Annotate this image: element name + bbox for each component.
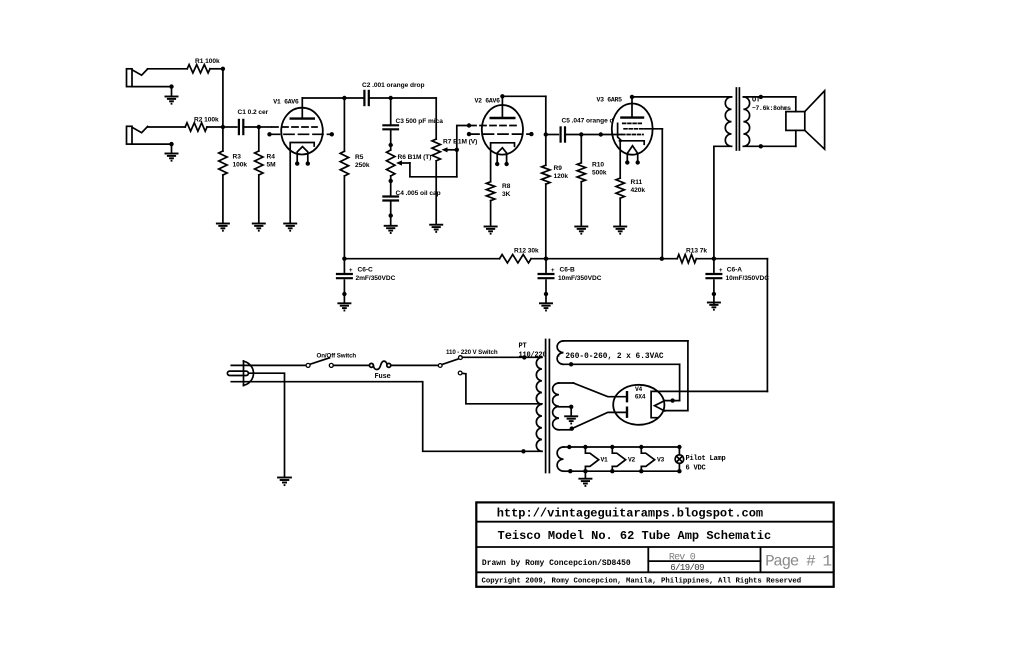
node junction bbox=[579, 132, 583, 136]
wire bbox=[565, 134, 581, 136]
ground bbox=[429, 225, 443, 232]
V2 grid bbox=[470, 125, 517, 127]
title block bbox=[476, 502, 833, 586]
node bbox=[521, 449, 525, 453]
label heater V2 bbox=[628, 457, 636, 464]
svg-text:C6-C: C6-C bbox=[358, 267, 373, 274]
node bbox=[389, 143, 393, 147]
svg-text:+: + bbox=[349, 268, 353, 274]
heater V2 bbox=[610, 445, 626, 474]
wire bbox=[490, 201, 492, 227]
ground bbox=[283, 224, 297, 231]
wire bbox=[171, 87, 173, 97]
label R8 bbox=[502, 183, 511, 198]
ground bbox=[578, 479, 592, 486]
wire bbox=[392, 364, 439, 366]
heater V3 bbox=[639, 445, 655, 474]
svg-text:R4: R4 bbox=[267, 154, 276, 161]
switch 110-220V bbox=[438, 356, 462, 375]
resistor R3 bbox=[219, 151, 227, 175]
wire AC low bbox=[250, 382, 542, 452]
wire bbox=[545, 96, 547, 134]
wire bbox=[743, 96, 795, 98]
svg-text:R12 30k: R12 30k bbox=[514, 247, 539, 254]
svg-text:3K: 3K bbox=[502, 191, 511, 198]
V1 heater bbox=[295, 147, 310, 166]
label heater V3 bbox=[657, 457, 665, 464]
node bbox=[630, 95, 634, 99]
node bbox=[670, 398, 674, 402]
node bbox=[570, 426, 574, 430]
V4 cathode bbox=[651, 391, 767, 417]
node junction bbox=[389, 96, 393, 100]
label C6-B bbox=[551, 267, 602, 282]
node junction bbox=[221, 67, 225, 71]
PT rect heater winding bbox=[557, 341, 688, 364]
label V4 bbox=[635, 386, 646, 401]
wire bbox=[581, 134, 601, 136]
switch On/Off bbox=[306, 358, 333, 368]
svg-text:6 VDC: 6 VDC bbox=[686, 465, 706, 473]
ground bbox=[564, 416, 578, 423]
V1 plate bbox=[290, 98, 316, 119]
wire bbox=[665, 400, 680, 402]
label PT bbox=[519, 343, 547, 360]
pot R7 bbox=[432, 98, 457, 225]
ground bbox=[484, 227, 498, 234]
wire bbox=[223, 126, 237, 128]
wire bbox=[524, 356, 542, 358]
capacitor C6-C bbox=[336, 259, 353, 303]
V3 suppressor tie bbox=[618, 123, 622, 140]
label heater V1 bbox=[601, 457, 609, 464]
svg-text:R6 B1M (T): R6 B1M (T) bbox=[398, 154, 432, 161]
label C1 bbox=[238, 109, 269, 116]
node junction bbox=[455, 148, 459, 152]
V2 heater bbox=[495, 148, 509, 166]
speaker bbox=[786, 91, 825, 149]
wire bbox=[546, 258, 662, 260]
wire bbox=[584, 471, 586, 478]
label 6 VDC bbox=[686, 465, 706, 473]
resistor R13 bbox=[677, 255, 696, 263]
svg-text:5M: 5M bbox=[267, 162, 277, 169]
PT primary bbox=[536, 357, 542, 451]
label R10 bbox=[592, 162, 607, 177]
svg-text:C5 .047 orange d: C5 .047 orange d bbox=[562, 118, 614, 125]
wire bbox=[696, 258, 714, 260]
svg-text:R2 100k: R2 100k bbox=[194, 116, 219, 123]
wire bbox=[334, 364, 370, 366]
wire bbox=[222, 175, 224, 223]
V3 grid1 bbox=[623, 122, 643, 124]
wire bbox=[390, 201, 392, 216]
svg-text:Fuse: Fuse bbox=[375, 373, 391, 381]
wire bbox=[390, 129, 392, 145]
wire bbox=[132, 86, 172, 88]
svg-text:110/220: 110/220 bbox=[519, 352, 547, 360]
svg-text:R9: R9 bbox=[554, 165, 563, 172]
svg-text:V4: V4 bbox=[635, 386, 643, 393]
wire bbox=[250, 364, 306, 366]
wire bbox=[795, 130, 797, 146]
label R7 bbox=[443, 139, 477, 146]
wire bbox=[222, 127, 224, 151]
PT heater winding bbox=[557, 447, 570, 471]
label R5 bbox=[355, 154, 370, 169]
tube V3 envelope bbox=[612, 104, 653, 155]
ground bbox=[337, 303, 351, 310]
svg-text:R11: R11 bbox=[631, 179, 643, 186]
label R2 bbox=[194, 116, 219, 123]
label C2 bbox=[362, 82, 424, 89]
svg-text:110 - 220 V Switch: 110 - 220 V Switch bbox=[446, 349, 498, 356]
node junction bbox=[544, 257, 548, 261]
wire screen feed bbox=[661, 129, 663, 259]
node junction bbox=[660, 257, 664, 261]
wire bbox=[132, 143, 172, 145]
wire bbox=[665, 341, 688, 411]
wire bbox=[302, 97, 344, 99]
svg-text:http://vintageguitaramps.blogs: http://vintageguitaramps.blogspot.com bbox=[497, 507, 763, 521]
pot R6 bbox=[387, 145, 410, 176]
resistor R12 bbox=[500, 255, 532, 263]
svg-text:C1 0.2 cer: C1 0.2 cer bbox=[238, 109, 269, 116]
node junction bbox=[712, 257, 716, 261]
label C6-C bbox=[349, 267, 396, 282]
node junction bbox=[342, 257, 346, 261]
wire bbox=[743, 145, 795, 147]
label On/Off Switch bbox=[317, 353, 357, 360]
node bbox=[389, 179, 393, 183]
svg-text:R10: R10 bbox=[592, 162, 604, 169]
label HV winding bbox=[556, 353, 664, 361]
svg-text:250k: 250k bbox=[355, 162, 370, 169]
label 110-220 V Switch bbox=[446, 349, 498, 356]
svg-text:V3: V3 bbox=[657, 457, 665, 464]
wire bbox=[619, 141, 621, 178]
label C6-A bbox=[719, 267, 769, 282]
wire bbox=[546, 134, 559, 136]
wire bbox=[714, 146, 732, 258]
wire bbox=[207, 126, 223, 128]
svg-text:V1: V1 bbox=[601, 457, 609, 464]
wire heater top bbox=[569, 446, 679, 448]
wire bbox=[171, 144, 173, 153]
label R9 bbox=[554, 165, 569, 180]
svg-text:R8: R8 bbox=[502, 183, 511, 190]
wire bbox=[632, 96, 732, 98]
wire B+ rail bbox=[344, 258, 499, 260]
label R4 bbox=[267, 154, 277, 169]
ground bbox=[613, 227, 627, 234]
ground bbox=[574, 227, 588, 234]
wire bbox=[462, 356, 524, 358]
wire chassis bbox=[248, 373, 284, 477]
capacitor C1 bbox=[239, 119, 243, 135]
svg-text:R3: R3 bbox=[233, 154, 242, 161]
svg-text:C6-B: C6-B bbox=[560, 267, 575, 274]
resistor R5 bbox=[340, 98, 348, 259]
ground bbox=[707, 303, 721, 310]
wire bbox=[259, 126, 271, 128]
V1 cathode bbox=[290, 143, 314, 224]
wire bbox=[714, 258, 768, 260]
svg-text:- 260-0-260, 2 x 6.3VAC: - 260-0-260, 2 x 6.3VAC bbox=[556, 353, 664, 361]
svg-text:Copyright 2009, Romy Concepcio: Copyright 2009, Romy Concepcion, Manila,… bbox=[482, 578, 802, 586]
wire bbox=[258, 175, 260, 223]
svg-text:V3 6AR5: V3 6AR5 bbox=[597, 97, 623, 104]
ground bbox=[165, 97, 179, 104]
node bbox=[759, 144, 763, 148]
node bbox=[569, 362, 573, 366]
wire bbox=[344, 97, 364, 99]
wire bbox=[457, 126, 469, 177]
ground bbox=[384, 226, 398, 233]
svg-text:10mF/350VDC: 10mF/350VDC bbox=[726, 275, 770, 282]
heater V1 bbox=[583, 445, 599, 474]
V3 heater bbox=[625, 146, 640, 165]
wire bbox=[390, 176, 392, 196]
svg-text:R5: R5 bbox=[355, 154, 364, 161]
V2 diode plates bbox=[467, 132, 534, 136]
capacitor C5 bbox=[561, 126, 565, 142]
svg-text:2mF/350VDC: 2mF/350VDC bbox=[356, 275, 396, 282]
svg-text:Page # 1: Page # 1 bbox=[765, 553, 831, 571]
label C3 bbox=[396, 118, 444, 125]
node bbox=[522, 355, 526, 359]
OT primary bbox=[725, 97, 731, 146]
svg-text:6X4: 6X4 bbox=[635, 394, 646, 401]
PT HV winding bbox=[553, 383, 574, 430]
svg-text:R13 7k: R13 7k bbox=[686, 247, 707, 254]
svg-text:V2: V2 bbox=[628, 457, 636, 464]
svg-text:R7 B1M (V): R7 B1M (V) bbox=[443, 139, 477, 146]
AC plug bbox=[227, 361, 253, 386]
svg-text:+: + bbox=[719, 268, 723, 274]
resistor R11 bbox=[616, 178, 624, 198]
node bbox=[759, 95, 763, 99]
wire to V4 plate 1 bbox=[573, 383, 626, 397]
fuse F1 bbox=[369, 361, 390, 369]
svg-text:R1 100k: R1 100k bbox=[195, 58, 220, 65]
label R3 bbox=[233, 154, 248, 169]
capacitor C6-B bbox=[538, 259, 555, 303]
wire bbox=[391, 97, 437, 99]
V2 cathode bbox=[491, 143, 515, 182]
wire bbox=[662, 258, 677, 260]
capacitor C2 bbox=[364, 90, 368, 106]
svg-text:500k: 500k bbox=[592, 170, 607, 177]
V3 cathode bbox=[620, 141, 645, 145]
svg-text:6/19/09: 6/19/09 bbox=[670, 563, 704, 573]
node junction bbox=[467, 123, 471, 127]
resistor R2 bbox=[185, 123, 207, 131]
V3 grid3 bbox=[622, 134, 643, 136]
node bbox=[389, 213, 393, 217]
HV center tap bbox=[559, 405, 573, 417]
wire bbox=[243, 126, 258, 128]
wire bbox=[210, 68, 223, 70]
node bbox=[567, 445, 572, 474]
label OT ratio bbox=[752, 105, 791, 112]
wire bbox=[258, 127, 260, 151]
V3 plate bbox=[620, 97, 644, 118]
OT core bbox=[736, 88, 739, 150]
node junction bbox=[257, 125, 261, 129]
svg-text:420k: 420k bbox=[631, 187, 646, 194]
svg-text:C6-A: C6-A bbox=[727, 267, 742, 274]
V2 plate bbox=[490, 96, 516, 118]
tube V2 envelope bbox=[482, 105, 523, 155]
label R12 bbox=[514, 247, 539, 254]
wire heater bottom bbox=[570, 470, 679, 472]
svg-text:V2 6AV6: V2 6AV6 bbox=[475, 98, 501, 105]
label V1 bbox=[273, 98, 299, 105]
wire bbox=[531, 258, 546, 260]
wire bbox=[619, 198, 621, 226]
tube V4 envelope bbox=[613, 385, 664, 425]
wire bbox=[390, 98, 392, 125]
svg-text:V1 6AV6: V1 6AV6 bbox=[273, 98, 299, 105]
label R1 bbox=[195, 58, 220, 65]
label V3 bbox=[597, 97, 623, 104]
wire bbox=[390, 216, 392, 226]
ground bbox=[252, 224, 266, 231]
V4 plate 2 bbox=[626, 407, 628, 418]
node junction bbox=[544, 132, 548, 136]
resistor R4 bbox=[255, 151, 263, 175]
V3 screen bbox=[624, 128, 662, 130]
V4 plate 1 bbox=[626, 391, 628, 402]
resistor R10 bbox=[577, 135, 585, 227]
svg-text:120k: 120k bbox=[554, 173, 569, 180]
node junction bbox=[342, 96, 346, 100]
capacitor C4 bbox=[382, 197, 399, 201]
V1 diode plates bbox=[267, 132, 334, 136]
label R6 bbox=[398, 154, 432, 161]
svg-text:C4 .005 oil cap: C4 .005 oil cap bbox=[396, 190, 441, 197]
pilot lamp bbox=[675, 445, 684, 474]
svg-text:On/Off Switch: On/Off Switch bbox=[317, 353, 357, 360]
svg-text:+: + bbox=[551, 268, 555, 274]
wire to V4 plate 2 bbox=[572, 412, 626, 428]
input jack J1 bbox=[127, 69, 148, 87]
svg-text:Teisco Model No. 62 Tube Amp S: Teisco Model No. 62 Tube Amp Schematic bbox=[498, 529, 772, 543]
ground bbox=[216, 224, 230, 231]
label C5 bbox=[562, 118, 614, 125]
capacitor C3 bbox=[382, 125, 399, 129]
resistor R8 bbox=[486, 182, 494, 201]
ground bbox=[539, 303, 553, 310]
capacitor C6-A bbox=[705, 259, 722, 303]
wire bbox=[148, 126, 186, 128]
node bbox=[169, 84, 173, 88]
ground bbox=[165, 154, 179, 161]
wire bbox=[462, 373, 542, 404]
wire bbox=[601, 134, 621, 136]
input jack J2 bbox=[127, 126, 148, 144]
wire bbox=[222, 69, 224, 127]
label OT bbox=[752, 97, 760, 105]
wire bbox=[795, 97, 797, 112]
PT core bbox=[546, 340, 550, 473]
label R13 bbox=[686, 247, 707, 254]
svg-text:C2 .001 orange drop: C2 .001 orange drop bbox=[362, 82, 424, 89]
V1 grid bbox=[272, 126, 317, 128]
node junction bbox=[221, 125, 225, 129]
resistor R1 bbox=[187, 65, 210, 73]
wire bbox=[148, 68, 188, 70]
svg-text:Rev 0: Rev 0 bbox=[669, 552, 696, 563]
wire bbox=[502, 95, 545, 97]
label Pilot Lamp bbox=[686, 455, 726, 463]
node bbox=[169, 142, 173, 146]
OT secondary bbox=[743, 97, 749, 146]
svg-text:10mF/350VDC: 10mF/350VDC bbox=[558, 275, 602, 282]
svg-text:100k: 100k bbox=[233, 162, 248, 169]
tube V1 envelope bbox=[281, 108, 323, 155]
resistor R9 bbox=[542, 135, 550, 259]
wire B+ from cathode bbox=[766, 259, 768, 392]
node junction bbox=[599, 132, 603, 136]
ground chassis bbox=[277, 478, 292, 486]
svg-text:Drawn by Romy Concepcion/SD845: Drawn by Romy Concepcion/SD8450 bbox=[482, 559, 631, 568]
svg-text:PT: PT bbox=[519, 343, 527, 351]
label V2 bbox=[475, 98, 501, 105]
label C4 bbox=[396, 190, 441, 197]
wire bbox=[679, 364, 681, 400]
V4 heater bbox=[655, 401, 665, 411]
wire bbox=[410, 163, 457, 177]
wire bbox=[369, 97, 391, 99]
svg-text:Pilot Lamp: Pilot Lamp bbox=[686, 455, 726, 463]
node bbox=[500, 94, 504, 98]
label Fuse bbox=[375, 373, 391, 381]
label R11 bbox=[631, 179, 646, 194]
